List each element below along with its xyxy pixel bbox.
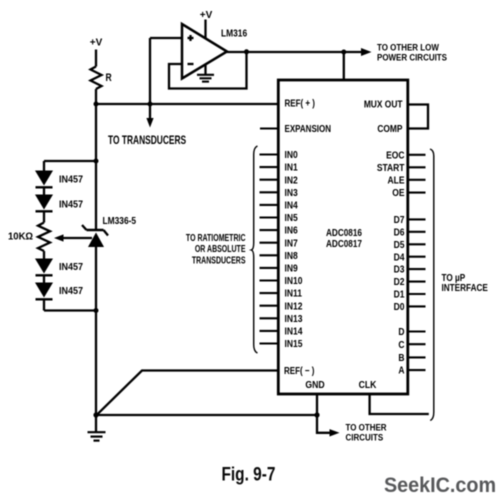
pin D4 — [408, 256, 426, 258]
svg-text:ADC0816: ADC0816 — [326, 227, 362, 238]
svg-text:D: D — [398, 326, 404, 337]
node supply tap — [341, 50, 346, 55]
wire — [43, 275, 45, 282]
svg-text:D1: D1 — [394, 289, 405, 300]
pin IN14 — [260, 330, 279, 332]
svg-text:IN457: IN457 — [59, 199, 83, 211]
pin ALE — [408, 179, 426, 181]
pin D7 — [408, 218, 426, 220]
pin IN15 — [260, 342, 279, 344]
svg-text:EOC: EOC — [386, 150, 405, 161]
bracket uP interface — [430, 149, 434, 421]
wire resistor to node — [95, 89, 97, 104]
svg-text:D5: D5 — [394, 239, 405, 250]
svg-text:+V: +V — [90, 38, 103, 49]
pin IN7 — [260, 242, 279, 244]
pin EXPANSION stub — [260, 127, 278, 129]
ground main — [95, 415, 97, 432]
diode D4 IN457 — [35, 283, 53, 298]
op-amp U1 LM316 — [182, 24, 227, 79]
pin IN0 — [260, 153, 279, 155]
svg-text:10KΩ: 10KΩ — [8, 231, 33, 242]
pin EOC — [408, 154, 426, 156]
wire bottom branch diode chain — [44, 309, 96, 311]
label LM316 — [221, 28, 247, 40]
IC U2 ADC0816 ADC0817 body — [278, 80, 408, 394]
wire REF(+) horizontal — [96, 103, 279, 105]
pin IN6 — [260, 229, 279, 231]
svg-text:IN12: IN12 — [285, 301, 303, 312]
svg-text:Fig. 9-7: Fig. 9-7 — [222, 463, 276, 485]
pin D1 — [408, 293, 426, 295]
wire GND pin drop — [316, 394, 318, 415]
svg-text:D7: D7 — [394, 214, 405, 225]
svg-text:IN7: IN7 — [285, 238, 298, 249]
svg-text:IN13: IN13 — [285, 313, 303, 324]
svg-text:IN14: IN14 — [285, 326, 304, 337]
node output dot — [244, 49, 249, 54]
pin IN2 — [260, 179, 279, 181]
wire output to other low power — [227, 51, 363, 53]
wire Vcc drop to chip — [343, 52, 345, 80]
diode D2 IN457 — [35, 195, 53, 210]
wire op-amp plus input riser — [149, 38, 151, 104]
pin IN8 — [260, 254, 279, 256]
svg-text:TO OTHER: TO OTHER — [346, 422, 388, 433]
svg-text:LM336-5: LM336-5 — [103, 215, 137, 227]
svg-text:EXPANSION: EXPANSION — [285, 123, 331, 134]
pin IN9 — [260, 267, 279, 269]
wiper arrow — [62, 237, 92, 239]
node diode top — [94, 159, 99, 164]
wire — [43, 187, 45, 194]
wire arrow to transducers — [149, 104, 151, 119]
wire +V to resistor — [95, 50, 97, 67]
pin START — [408, 166, 426, 168]
brace IN group — [251, 146, 257, 353]
svg-text:D3: D3 — [394, 264, 405, 275]
pin D3 — [408, 268, 426, 270]
node GND junction — [314, 412, 319, 417]
svg-text:D0: D0 — [394, 301, 405, 312]
svg-text:IN3: IN3 — [285, 187, 298, 198]
pin IN3 — [260, 191, 279, 193]
svg-text:TRANSDUCERS: TRANSDUCERS — [192, 254, 246, 266]
svg-text:IN4: IN4 — [285, 200, 299, 211]
wire +V to op-amp — [204, 20, 206, 39]
diode D3 IN457 — [35, 259, 53, 274]
label TO OTHER LOW POWER CIRCUITS — [377, 42, 447, 63]
svg-text:D4: D4 — [394, 252, 406, 263]
pin D5 — [408, 243, 426, 245]
svg-text:IN10: IN10 — [285, 275, 303, 286]
svg-text:CIRCUITS: CIRCUITS — [346, 432, 384, 443]
svg-text:A: A — [398, 365, 404, 376]
wire feedback loop — [169, 52, 247, 89]
label TO RATIOMETRIC OR ABSOLUTE TRANSDUCERS — [186, 232, 246, 266]
wire to other circuits — [317, 415, 331, 433]
watermark SeekIC.com — [384, 473, 496, 497]
pin IN5 — [260, 216, 279, 218]
svg-text:D6: D6 — [394, 227, 405, 238]
svg-text:IN15: IN15 — [285, 338, 303, 349]
wire top branch diode chain — [44, 160, 96, 162]
svg-text:IN5: IN5 — [285, 212, 298, 223]
svg-text:R: R — [106, 72, 112, 84]
node diode bottom — [94, 308, 99, 313]
wire — [43, 299, 45, 310]
svg-text:TO RATIOMETRIC: TO RATIOMETRIC — [186, 232, 246, 244]
svg-text:POWER CIRCUITS: POWER CIRCUITS — [377, 52, 447, 63]
svg-text:IN457: IN457 — [59, 262, 83, 274]
svg-text:D2: D2 — [394, 277, 405, 288]
ground op-amp — [204, 64, 206, 75]
svg-text:LM316: LM316 — [221, 28, 247, 40]
pin IN10 — [260, 279, 279, 281]
svg-text:IN8: IN8 — [285, 250, 298, 261]
wire — [43, 251, 45, 259]
svg-text:MUX OUT: MUX OUT — [364, 99, 403, 110]
pin C — [408, 343, 426, 345]
wire rail node to zener — [95, 104, 97, 230]
svg-text:B: B — [398, 352, 404, 363]
svg-text:OE: OE — [392, 188, 404, 199]
svg-text:IN457: IN457 — [59, 286, 83, 298]
svg-text:TO TRANSDUCERS: TO TRANSDUCERS — [108, 135, 186, 148]
svg-text:OR ABSOLUTE: OR ABSOLUTE — [195, 243, 246, 255]
svg-text:COMP: COMP — [377, 123, 402, 134]
label TO uP INTERFACE — [442, 271, 488, 293]
wire MUX OUT to COMP loop — [408, 105, 428, 129]
wire plus input horizontal — [150, 37, 183, 39]
wire zener to bottom — [95, 247, 97, 415]
pin IN4 — [260, 204, 279, 206]
pin B — [408, 356, 426, 358]
zener LM336-5 — [87, 229, 104, 231]
wire CLK pin — [370, 394, 429, 414]
svg-text:ADC0817: ADC0817 — [326, 238, 362, 249]
svg-text:START: START — [377, 162, 405, 173]
node ground left — [93, 412, 98, 417]
wire REF(-) to ground node — [97, 371, 278, 415]
svg-text:IN0: IN0 — [285, 149, 298, 160]
pin D6 — [408, 231, 426, 233]
potentiometer 10K — [38, 223, 50, 252]
wire — [43, 211, 45, 222]
label TO OTHER CIRCUITS — [346, 422, 388, 443]
node transducer tap — [148, 102, 153, 107]
svg-text:GND: GND — [305, 379, 325, 390]
pin D0 — [408, 305, 426, 307]
resistor R — [91, 67, 102, 90]
caption Fig. 9-7 — [222, 463, 276, 485]
svg-text:IN2: IN2 — [285, 175, 298, 186]
pin IN13 — [260, 317, 279, 319]
pin IN1 — [260, 166, 279, 168]
pin OE — [408, 192, 426, 194]
diode D1 IN457 — [35, 171, 53, 186]
svg-text:IN6: IN6 — [285, 225, 298, 236]
pin A — [408, 369, 426, 371]
svg-text:IN1: IN1 — [285, 162, 298, 173]
svg-text:CLK: CLK — [359, 379, 377, 390]
pin D2 — [408, 281, 426, 283]
node rail/REF junction — [94, 102, 99, 107]
svg-text:INTERFACE: INTERFACE — [442, 281, 488, 293]
svg-text:IN457: IN457 — [59, 174, 83, 186]
label TO TRANSDUCERS — [108, 135, 186, 148]
pin IN11 — [260, 292, 279, 294]
wire — [43, 161, 45, 171]
svg-text:REF( − ): REF( − ) — [284, 365, 314, 376]
svg-text:REF( + ): REF( + ) — [285, 98, 315, 109]
svg-text:SeekIC.com: SeekIC.com — [384, 473, 496, 497]
wire bottom ground bus — [96, 414, 317, 416]
svg-text:IN11: IN11 — [285, 288, 302, 299]
node +V label left — [90, 38, 103, 49]
svg-text:+V: +V — [200, 10, 213, 21]
svg-text:IN9: IN9 — [285, 263, 298, 274]
svg-text:ALE: ALE — [388, 175, 405, 186]
pin IN12 — [260, 305, 279, 307]
label +V op-amp — [200, 10, 213, 21]
svg-text:C: C — [398, 339, 404, 350]
pin D — [408, 330, 426, 332]
